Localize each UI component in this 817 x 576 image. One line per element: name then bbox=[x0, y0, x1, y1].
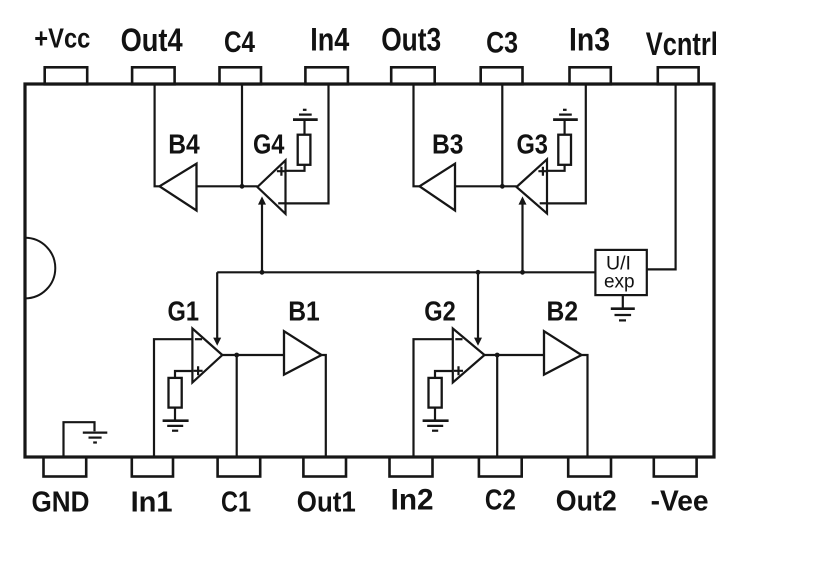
svg-text:+Vcc: +Vcc bbox=[34, 22, 90, 53]
op-amp G3 bbox=[517, 159, 548, 213]
G3 minus label bbox=[540, 202, 547, 204]
G1 minus label bbox=[195, 338, 202, 340]
svg-text:Out2: Out2 bbox=[556, 485, 617, 517]
svg-text:Out1: Out1 bbox=[297, 486, 356, 518]
ground at GND pin bbox=[83, 432, 108, 434]
ground above R3 bbox=[553, 118, 578, 121]
pin 1 +Vcc bbox=[45, 67, 87, 84]
svg-text:Out3: Out3 bbox=[381, 22, 441, 58]
svg-text:Out4: Out4 bbox=[121, 22, 183, 58]
wire gain-control bus bbox=[217, 271, 595, 273]
pin In3 bbox=[570, 67, 611, 84]
svg-text:C4: C4 bbox=[224, 26, 255, 59]
G4 plus label bbox=[277, 167, 286, 176]
arrowhead into G2 bbox=[474, 338, 482, 346]
pin In1 bbox=[132, 457, 173, 477]
resistor R4 bbox=[298, 135, 311, 165]
svg-text:In4: In4 bbox=[310, 21, 349, 57]
node bus to G4 bbox=[260, 270, 265, 275]
svg-text:GND: GND bbox=[32, 486, 90, 518]
svg-text:Vcntrl: Vcntrl bbox=[646, 26, 718, 62]
op-amp G2 bbox=[453, 329, 485, 383]
wire C2 bbox=[496, 355, 498, 456]
pin -Vee bbox=[654, 457, 697, 477]
ground above R4 bbox=[293, 118, 318, 121]
op-amp G4 bbox=[257, 160, 285, 214]
wire G1 output to B1 input bbox=[222, 354, 284, 356]
svg-text:C2: C2 bbox=[485, 484, 516, 516]
wire In1 to G1 minus input bbox=[154, 339, 192, 456]
wire B3 input to G3 output bbox=[455, 185, 517, 187]
IC body U1 bbox=[25, 84, 714, 457]
arrowhead into G4 bbox=[258, 196, 266, 204]
wire U/I block to ground bbox=[622, 295, 624, 308]
svg-text:C1: C1 bbox=[221, 486, 251, 518]
wire Vcntrl to U/I block bbox=[647, 85, 676, 269]
arrowhead into G1 bbox=[213, 338, 221, 346]
wire C1 bbox=[236, 355, 238, 456]
svg-text:B4: B4 bbox=[168, 128, 200, 159]
U/I exponential converter block bbox=[595, 250, 646, 295]
svg-text:exp: exp bbox=[604, 272, 635, 293]
G3 plus label bbox=[538, 167, 547, 176]
wire gain control to G3 bbox=[521, 204, 523, 273]
wire C4 bbox=[241, 85, 243, 186]
pin Out4 bbox=[132, 67, 175, 84]
resistor R3 bbox=[558, 135, 571, 165]
notch (pin-1 index) bbox=[25, 238, 55, 299]
G4 minus label bbox=[278, 202, 285, 204]
wire R3 to ground bbox=[563, 121, 565, 135]
svg-text:C3: C3 bbox=[486, 27, 518, 60]
svg-text:G2: G2 bbox=[424, 296, 456, 327]
pin GND bbox=[44, 457, 87, 477]
wire R2 to ground bbox=[434, 408, 436, 420]
wire G1 plus input to R1 bbox=[175, 371, 192, 378]
pin Out2 bbox=[568, 457, 611, 477]
buffer B1 bbox=[284, 331, 322, 374]
node C3 junction bbox=[500, 184, 505, 189]
wire G4 plus input to R4 bbox=[286, 165, 305, 171]
pin C3 bbox=[481, 67, 523, 84]
wire gain control to G2 bbox=[477, 272, 479, 338]
pin C1 bbox=[218, 457, 261, 477]
pin Out1 bbox=[303, 457, 346, 477]
svg-text:In3: In3 bbox=[569, 22, 610, 58]
op-amp G1 bbox=[192, 329, 222, 383]
buffer B3 bbox=[420, 164, 456, 211]
resistor R1 bbox=[169, 378, 182, 408]
wire In4 to G4 minus input bbox=[286, 85, 329, 203]
wire gain control to G1 bbox=[216, 272, 218, 338]
svg-text:B3: B3 bbox=[432, 128, 464, 159]
arrowhead into G3 bbox=[519, 196, 527, 204]
wire G3 plus input to R3 bbox=[547, 165, 565, 171]
wire C3 bbox=[501, 85, 503, 186]
buffer B4 bbox=[160, 164, 197, 211]
wire Out3 to B3 output bbox=[414, 85, 420, 186]
node bus to G3 bbox=[520, 270, 525, 275]
pin In4 bbox=[305, 67, 348, 84]
pin Out3 bbox=[391, 67, 435, 84]
svg-text:In2: In2 bbox=[391, 483, 434, 516]
G1 plus label bbox=[194, 366, 203, 375]
svg-text:B1: B1 bbox=[288, 296, 320, 327]
node C1 junction bbox=[234, 353, 239, 358]
wire B1 output to Out1 bbox=[322, 355, 326, 456]
ground below U/I block bbox=[611, 307, 635, 310]
wire G2 output to B2 input bbox=[485, 354, 545, 356]
wire GND pin to internal ground bbox=[64, 422, 95, 456]
svg-text:G1: G1 bbox=[168, 296, 200, 327]
svg-text:In1: In1 bbox=[131, 486, 173, 518]
ground below R1 bbox=[163, 419, 189, 422]
pin C4 bbox=[220, 67, 262, 84]
wire B4 input to G4 output bbox=[197, 185, 258, 187]
buffer B2 bbox=[544, 331, 582, 374]
svg-text:G4: G4 bbox=[253, 128, 285, 159]
G2 plus label bbox=[454, 366, 463, 375]
G2 minus label bbox=[455, 338, 462, 340]
wire gain control to G4 bbox=[261, 204, 263, 273]
node C4 junction bbox=[240, 184, 245, 189]
node C2 junction bbox=[495, 353, 500, 358]
node bus to G2 bbox=[476, 270, 481, 275]
wire R4 to ground bbox=[303, 121, 305, 135]
ground below R2 bbox=[423, 419, 449, 422]
svg-text:B2: B2 bbox=[547, 296, 579, 327]
wire In3 to G3 minus input bbox=[547, 85, 586, 203]
wire In2 to G2 minus input bbox=[414, 339, 453, 456]
svg-text:G3: G3 bbox=[516, 128, 548, 159]
svg-text:-Vee: -Vee bbox=[651, 485, 709, 517]
wire Out4 to B4 output bbox=[155, 85, 160, 186]
pin In2 bbox=[390, 457, 433, 477]
wire G2 plus input to R2 bbox=[435, 371, 453, 378]
wire B2 output to Out2 bbox=[582, 355, 588, 456]
pin C2 bbox=[479, 457, 522, 477]
resistor R2 bbox=[429, 378, 442, 408]
wire R1 to ground bbox=[174, 408, 176, 420]
pin Vcntrl bbox=[658, 67, 699, 84]
